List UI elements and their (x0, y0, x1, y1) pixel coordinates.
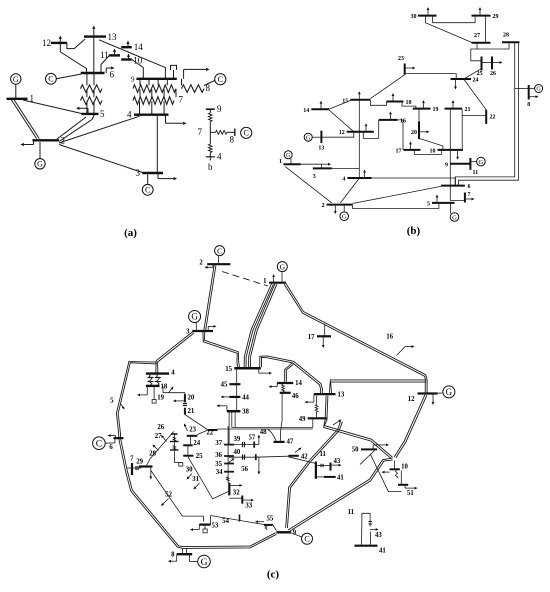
svg-text:23: 23 (398, 56, 404, 62)
load arrow bus 6 (106, 66, 114, 73)
bus 33 (panel c) (242, 496, 252, 510)
bus 29 (panel b) (472, 14, 499, 20)
load box at 53 (203, 525, 207, 533)
svg-text:28: 28 (503, 33, 509, 39)
bus 38 (panel c) (227, 409, 250, 416)
svg-text:15: 15 (225, 366, 232, 373)
svg-text:32: 32 (233, 490, 240, 497)
bus 13 (panel a) (84, 32, 117, 42)
load arrow bus 11 (113, 49, 116, 56)
wire 1-3 (301, 163, 322, 165)
bus 6 (panel c) (109, 438, 123, 451)
bus 11 (panel b) (470, 158, 478, 176)
generator G at bus 11 (panel b) (470, 157, 485, 166)
wire 9-12 double lower (288, 458, 393, 531)
svg-text:49: 49 (299, 416, 306, 423)
wire 27-28 (477, 42, 509, 49)
bus 14 (panel b) (303, 108, 329, 114)
wire 12-13 rectangle double (329, 380, 426, 393)
condenser C at bus 2 (panel c) (215, 246, 225, 263)
svg-text:8: 8 (171, 552, 175, 559)
wire 6-13 (93, 37, 95, 73)
wire 25-27 (471, 49, 482, 61)
bus 43 (panel c) (331, 458, 341, 471)
svg-text:5: 5 (100, 109, 105, 119)
svg-text:51: 51 (407, 490, 414, 497)
svg-text:17: 17 (396, 148, 402, 154)
bus 9 (panel c) (276, 530, 296, 537)
bus 41 (panel c) (324, 474, 344, 481)
svg-text:4: 4 (342, 177, 345, 183)
svg-text:11: 11 (348, 509, 355, 516)
svg-text:C: C (304, 535, 309, 544)
wire 25-30-31-32 diagonal (188, 457, 229, 499)
bus 7 (panel c) (130, 456, 134, 476)
svg-text:36: 36 (215, 452, 222, 459)
svg-text:54: 54 (222, 518, 229, 525)
svg-text:37: 37 (215, 440, 222, 447)
load arrow bus 10 (456, 150, 459, 160)
generator G at bus 2 (panel b) (340, 205, 349, 221)
generator G at bus 8 (panel b) (529, 85, 543, 93)
caption (c) (267, 569, 280, 581)
winding 4-18 (148, 375, 161, 385)
wire 9-55-54-53 (211, 516, 277, 531)
svg-text:C: C (145, 186, 150, 195)
load box below 24-26 chain (174, 463, 182, 467)
wire 11-42 diagonal (288, 457, 316, 464)
wire 12-14 (329, 110, 354, 132)
svg-text:29: 29 (136, 459, 143, 466)
svg-text:G: G (280, 262, 286, 271)
wire 15-18 (370, 100, 386, 106)
bus 1 (panel b) (279, 159, 301, 165)
load arrow bus 23 (405, 67, 416, 70)
bus 9 (panel a) (131, 75, 177, 83)
wire 6-28 right vertical (455, 42, 515, 185)
wire 11-43 (316, 464, 331, 467)
load arrow bus 18 (137, 386, 147, 396)
load arrow bus 3 (158, 173, 177, 180)
wire 8 to line (183, 549, 187, 555)
svg-text:2: 2 (199, 260, 203, 267)
wire 10 tap (394, 461, 396, 469)
wire 4-6 (372, 178, 456, 186)
svg-text:13: 13 (338, 392, 345, 399)
svg-text:C: C (244, 129, 249, 138)
generator G at bus 1 (panel a) (11, 74, 21, 98)
load arrow bus 38 (217, 404, 227, 411)
wire 12 to elbow double (394, 394, 427, 458)
wire 23-24 chain (190, 437, 192, 444)
svg-text:(a): (a) (124, 227, 137, 239)
load arrow bus 3 (321, 163, 331, 169)
svg-text:C: C (96, 440, 102, 450)
load arrow bus 15 (259, 368, 272, 374)
label 31 (panel c) (192, 476, 199, 483)
wire 25-26 and load arrow bus 26 (482, 61, 503, 64)
svg-text:17: 17 (308, 334, 315, 341)
load arrow bus 9 (184, 68, 210, 79)
wire 37-39-57 row (229, 435, 256, 448)
bus 35 (panel c) (215, 461, 234, 468)
svg-text:19: 19 (157, 395, 164, 402)
svg-text:56: 56 (241, 466, 248, 473)
svg-text:39: 39 (234, 436, 241, 443)
dashed wire 1-2 (222, 272, 268, 287)
winding 14-46 (282, 385, 285, 392)
wire 1-2 double circuit (12, 100, 40, 139)
load arrow bus 30 (187, 474, 193, 480)
wire 22-38-48-49 horizontal (218, 420, 313, 430)
load arrow bus 17 (322, 336, 325, 348)
wire 9-49 double (286, 421, 343, 528)
load arrow bus 24 (454, 79, 457, 90)
svg-text:55: 55 (267, 516, 274, 523)
svg-text:11: 11 (100, 50, 109, 60)
wire windings to bus 4 (140, 101, 165, 114)
load arrow bus 33 (242, 499, 254, 502)
load arrow bus 23 (184, 424, 188, 432)
bus 8 (panel c) (171, 552, 192, 559)
bus 16 (panel b) (379, 118, 406, 124)
load arrow bus 56 (241, 457, 260, 474)
bus 26 (panel b) (490, 57, 496, 78)
svg-text:19: 19 (433, 107, 439, 113)
load arrow bus 51 (405, 485, 417, 490)
load arrow bus 4 (166, 115, 187, 125)
load arrow bus 3 (208, 325, 216, 331)
condenser C at bus 3 (panel a) (142, 175, 153, 196)
svg-text:8: 8 (230, 135, 235, 145)
svg-text:10: 10 (430, 148, 436, 154)
wire windings to bus 5 (5-6 transformer) (87, 73, 94, 114)
bus 2 (panel b) (322, 203, 353, 209)
wire 29-30 (433, 16, 476, 23)
load arrow bus 2 (205, 264, 214, 269)
svg-text:27: 27 (155, 433, 162, 440)
bus 47 (panel c) (274, 439, 294, 446)
load arrow bus 18 (392, 93, 395, 102)
caption (a) (124, 227, 137, 239)
svg-text:3: 3 (136, 168, 141, 178)
wire bus9 to windings (140, 79, 182, 86)
bus 28 (panel b) (502, 33, 520, 43)
bus 22 (panel b) (486, 110, 495, 124)
wire 10-21 and 9-6 vertical (449, 109, 451, 186)
generator G at bus 8 (panel c) (190, 554, 211, 568)
svg-text:C: C (48, 75, 53, 84)
wire 38-48 verticals (232, 411, 235, 427)
bus 4 (panel a) (127, 110, 169, 120)
svg-text:12: 12 (408, 396, 415, 403)
svg-text:48: 48 (260, 429, 267, 436)
svg-text:G: G (342, 214, 347, 221)
load arrow bus 10 (127, 54, 130, 60)
wire 2-15 double B (249, 283, 277, 367)
load arrow bus 35 (229, 458, 235, 463)
svg-text:3: 3 (313, 174, 316, 180)
load arrow bus 14 (320, 101, 323, 110)
generator G at bus 3 (panel c) (189, 311, 201, 330)
svg-text:G: G (191, 312, 198, 322)
load arrow bus 8 (529, 95, 539, 98)
load arrow bus 43 (331, 464, 342, 467)
svg-text:5: 5 (110, 398, 114, 405)
wire 50-51 (370, 454, 401, 492)
condenser C at bus 8 (panel a) (204, 74, 226, 86)
generator G at bus 12 (panel c) (438, 386, 455, 398)
load arrow bus 20 (419, 130, 430, 133)
svg-text:22: 22 (490, 115, 496, 121)
load arrow bus 57 (254, 435, 260, 445)
generator G at bus 2 (panel a) (35, 142, 45, 169)
svg-text:7: 7 (468, 192, 471, 198)
line arrow 5 (121, 404, 125, 410)
svg-text:G: G (201, 558, 208, 568)
generator G at bus 1 (panel c) (277, 262, 287, 283)
wire 7-29 link (127, 466, 141, 470)
load arrow bus 7 (465, 198, 475, 201)
load arrow bus 4 (363, 170, 366, 179)
caption (b) (407, 225, 421, 237)
shunt symbol at bus 9 (171, 65, 177, 78)
node 9 tick (sub-circuit) (206, 104, 222, 114)
wire 38-37 vertical (228, 411, 230, 444)
svg-text:G: G (446, 387, 453, 397)
svg-text:24: 24 (473, 78, 479, 84)
svg-text:8: 8 (527, 102, 530, 108)
wire 15-23 (370, 75, 404, 99)
wire 10-51 vertical (400, 470, 402, 484)
wire 16-17 (398, 120, 403, 150)
svg-text:21: 21 (188, 408, 195, 415)
label 48 and curve to 47 (260, 429, 276, 441)
load arrow bus 17 (409, 141, 412, 150)
winding at 55 (265, 526, 267, 530)
wire 27-30 (426, 16, 472, 43)
bus 3 (panel c) (186, 329, 213, 336)
load arrow bus 30 (427, 7, 430, 16)
bus 2 (panel a) (33, 136, 66, 146)
wire 19-20 (418, 109, 420, 122)
winding 9-7 vertical (sub-circuit) (209, 109, 213, 132)
bus 36 (panel c) (215, 452, 234, 459)
winding 7-4 vertical (sub-circuit) (209, 132, 213, 160)
bus 11 (panel c) (316, 451, 327, 479)
bus 4 (panel c) (146, 370, 175, 377)
load arrow bus 1 (272, 274, 275, 283)
bus 10 (panel c) (390, 464, 409, 471)
bus 6 (panel b) (441, 184, 471, 190)
bus 10 (panel a) (121, 56, 143, 66)
svg-text:(c): (c) (267, 569, 280, 581)
wire 1-15 double A (244, 283, 273, 367)
bus 3 (panel b) (313, 168, 332, 179)
wire 29-52-53 (151, 470, 204, 522)
svg-text:29: 29 (493, 14, 499, 20)
wire 10-17 (414, 150, 441, 155)
svg-text:G: G (13, 75, 19, 84)
bus 24 (panel c) (183, 440, 201, 447)
label 19 and arrow (panel c) (157, 387, 173, 402)
svg-text:5: 5 (427, 201, 430, 207)
load arrow bus 12 (365, 123, 368, 132)
svg-text:9: 9 (217, 104, 222, 114)
bus 17 (panel b) (396, 148, 421, 154)
bus 46 (panel c) (280, 393, 300, 400)
wire 11-41 (316, 476, 324, 478)
svg-text:9: 9 (131, 75, 135, 83)
svg-text:38: 38 (242, 409, 249, 416)
svg-text:10: 10 (401, 464, 408, 471)
load arrow bus 32 (229, 484, 242, 487)
wire 12-16 (363, 120, 378, 138)
bus 2 (panel c) (199, 260, 230, 267)
svg-text:33: 33 (245, 503, 252, 510)
load arrow bus 5 (436, 194, 439, 203)
bus 27 (panel b) (472, 33, 491, 43)
bus 30 (panel b) (411, 14, 437, 20)
bus 18 (panel b) (387, 100, 412, 106)
bus 18 (panel c) (146, 383, 168, 390)
wire 32-33 (229, 497, 242, 499)
wire 56-42 (256, 456, 288, 457)
bus 53 (panel c) (199, 523, 219, 530)
load arrow bus 50 (373, 444, 389, 450)
svg-text:6: 6 (468, 184, 471, 190)
bus 6 (panel a) (81, 70, 115, 80)
condenser C at bus 6 (panel a) (46, 73, 82, 84)
bus 21 (panel c) (185, 408, 195, 415)
wire 8-9 bottom double (183, 533, 276, 549)
svg-text:14: 14 (134, 42, 144, 52)
svg-text:35: 35 (215, 461, 222, 468)
svg-text:2: 2 (322, 203, 325, 209)
svg-text:7: 7 (198, 127, 203, 137)
load arrow bus 2 (21, 140, 34, 146)
bus 17 (panel c) (308, 334, 331, 341)
load arrow bus 12 (59, 36, 62, 43)
wire 8 branch (515, 88, 529, 90)
generator G at bus 5 (panel b) (450, 203, 459, 221)
node 4 tick (sub-circuit) (206, 152, 222, 173)
svg-text:25: 25 (477, 71, 483, 77)
bus 19 (panel b) (413, 107, 439, 113)
svg-text:41: 41 (337, 474, 344, 481)
wire 9-13 double (324, 396, 393, 459)
load arrow bus 44 (221, 396, 230, 399)
bus 37 (panel c) (215, 440, 234, 447)
load arrow bus 13 (305, 394, 314, 403)
bus 10 (panel b) (430, 148, 464, 154)
winding 24-26 chain (170, 435, 179, 463)
svg-text:13: 13 (108, 32, 118, 42)
label 30 (panel c) (186, 467, 193, 474)
load arrow bus 29 (149, 467, 152, 480)
load arrow bus 2 (334, 205, 337, 214)
svg-text:20: 20 (188, 395, 195, 402)
svg-text:G: G (286, 153, 291, 159)
load arrow bus 12 (432, 394, 435, 406)
bus 3 (panel a) (136, 168, 164, 178)
node 7 (sub-circuit) (198, 127, 203, 137)
load arrow bus 10 (382, 471, 390, 474)
bus 4 (panel b) (342, 177, 371, 183)
winding 7-8 horizontal (sub-circuit) (210, 129, 235, 145)
wire 2-6 (353, 186, 441, 203)
bus 32 (panel c) (229, 483, 240, 497)
wire 2-4 (340, 178, 359, 203)
load arrow bus 5 (76, 107, 88, 114)
load arrow bus 31 (194, 483, 200, 490)
bus 12 (panel c) (408, 394, 438, 404)
bus 26 tick (panel c) (157, 424, 177, 434)
svg-text:13: 13 (318, 146, 324, 152)
wire 1-2 (285, 167, 332, 203)
load arrow bus 55 (255, 520, 264, 523)
wire 18-19-20 (163, 386, 185, 394)
load arrow bus 8 (168, 554, 177, 562)
svg-text:14: 14 (303, 108, 309, 114)
wire 1-16-17-12 double (284, 283, 427, 393)
svg-text:G: G (37, 160, 43, 169)
bus 15 (panel b) (342, 98, 370, 104)
load arrow bus 16 (389, 111, 392, 120)
svg-text:11: 11 (473, 170, 479, 176)
bus 11 (panel a) (100, 50, 120, 60)
bus 17 tap (panel c) (324, 324, 326, 337)
bus 5 (panel a) (81, 109, 105, 119)
bus 50 (panel c) (352, 447, 377, 454)
wire 22-23 (197, 430, 208, 435)
wire 24-25 (464, 69, 481, 79)
wire 6-11 (101, 55, 110, 72)
wire 10-20 (419, 139, 443, 150)
svg-text:30: 30 (411, 14, 417, 20)
svg-text:G: G (306, 135, 311, 141)
bus 42 (panel c) (288, 453, 308, 460)
wire 8-28 right vertical (458, 42, 518, 185)
wire 21-22 (462, 109, 486, 116)
label 5 (panel c) (110, 398, 114, 405)
wire 24-25 (187, 446, 189, 454)
wire 32-34 chain up (227, 426, 230, 483)
svg-text:53: 53 (212, 523, 219, 530)
svg-text:12: 12 (339, 130, 345, 136)
wire 2-4 (59, 116, 140, 143)
svg-text:11: 11 (320, 451, 327, 458)
svg-text:43: 43 (375, 532, 382, 539)
bus 49 (panel c) (299, 416, 328, 423)
svg-text:12: 12 (42, 38, 51, 48)
svg-text:C: C (217, 246, 222, 255)
load arrow bus 53 (190, 525, 199, 531)
load box at 18 (152, 386, 156, 403)
load arrow bus 42 (295, 448, 302, 453)
load arrow bus 52 (161, 499, 169, 507)
condenser C (sub-circuit) (241, 127, 252, 138)
wire 6-7 (450, 186, 465, 201)
svg-text:6: 6 (110, 70, 115, 80)
load arrow bus 14 (126, 41, 129, 48)
winding 20-21 (183, 404, 187, 406)
bus 55 (panel c) (264, 516, 274, 525)
svg-text:9: 9 (445, 162, 448, 168)
load arrow bus 21 (452, 100, 455, 109)
bus 9 (panel b) (445, 162, 470, 168)
arrow at bus 49 (333, 420, 342, 426)
